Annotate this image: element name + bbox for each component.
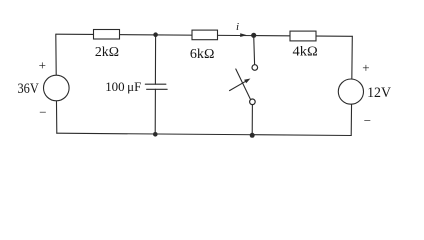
svg-text:−: −	[364, 113, 371, 128]
resistor R1 2kΩ	[94, 30, 120, 40]
voltage source Vs1 36V	[44, 75, 70, 101]
switch S1 wire lower	[251, 105, 253, 136]
wire right vertical	[351, 36, 352, 135]
switch S1 wire upper	[253, 35, 256, 64]
svg-text:2kΩ: 2kΩ	[95, 45, 119, 60]
switch S1 top terminal	[252, 65, 258, 71]
node dot bottom capacitor	[153, 132, 158, 137]
voltage source Vs2 12V	[338, 79, 363, 104]
svg-text:−: −	[39, 105, 46, 120]
resistor R3 4kΩ	[290, 31, 316, 41]
svg-text:i: i	[236, 21, 239, 33]
current arrow i head	[240, 33, 247, 37]
switch S1 bottom terminal	[250, 99, 256, 105]
wire top rail	[56, 34, 352, 36]
svg-text:36V: 36V	[18, 81, 39, 97]
capacitor C1 wire lower	[154, 89, 156, 134]
switch S1 blade	[236, 69, 251, 99]
switch S1 motion arrow line	[230, 81, 247, 91]
svg-text:6kΩ: 6kΩ	[190, 47, 215, 62]
svg-text:4kΩ: 4kΩ	[293, 44, 318, 59]
node dot top capacitor	[153, 32, 158, 37]
capacitor C1 100uF wire upper	[154, 35, 156, 84]
svg-text:100 μF: 100 μF	[105, 79, 141, 94]
node dot bottom switch	[250, 133, 255, 138]
wire bottom rail	[57, 133, 351, 135]
svg-text:12V: 12V	[367, 85, 391, 101]
svg-text:+: +	[362, 60, 369, 75]
wire left vertical	[56, 34, 57, 133]
svg-text:+: +	[39, 57, 46, 72]
switch S1 motion arrowhead	[244, 79, 250, 84]
resistor R2 6kΩ	[192, 30, 218, 40]
node dot top switch	[251, 33, 256, 38]
capacitor C1 plates	[145, 83, 166, 85]
